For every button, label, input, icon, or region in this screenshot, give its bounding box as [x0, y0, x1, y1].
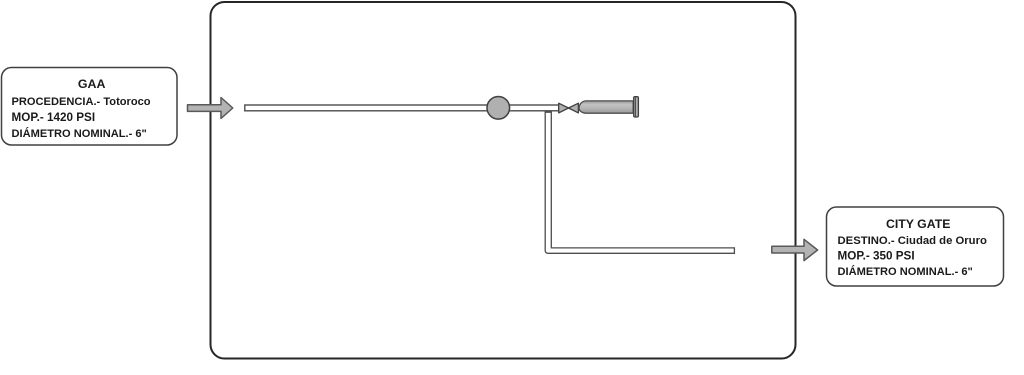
svg-text:PROCEDENCIA.- Totoroco: PROCEDENCIA.- Totoroco: [12, 96, 151, 108]
svg-text:DIÁMETRO NOMINAL.- 6": DIÁMETRO NOMINAL.- 6": [838, 265, 973, 278]
svg-text:DIÁMETRO NOMINAL.- 6": DIÁMETRO NOMINAL.- 6": [12, 127, 147, 140]
svg-text:MOP.- 1420 PSI: MOP.- 1420 PSI: [12, 111, 96, 124]
svg-text:MOP.- 350 PSI: MOP.- 350 PSI: [838, 250, 915, 263]
svg-text:DESTINO.- Ciudad de Oruro: DESTINO.- Ciudad de Oruro: [838, 235, 987, 247]
svg-text:GAA: GAA: [78, 77, 106, 91]
svg-text:CITY GATE: CITY GATE: [886, 217, 950, 231]
